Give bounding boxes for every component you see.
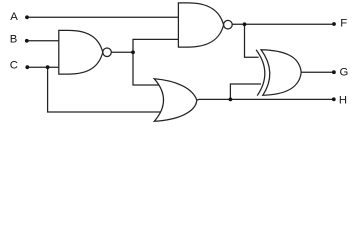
node dot input B [25, 39, 29, 43]
wire OR output to H [197, 98, 335, 101]
node dot input A [25, 15, 29, 19]
svg-text:H: H [339, 95, 347, 107]
wire A input [27, 16, 178, 18]
nand-gate U1 body [59, 30, 103, 74]
wire NAND1 output to node J1 [111, 51, 133, 53]
node dot J1 NAND1 output junction [131, 50, 135, 54]
svg-text:G: G [340, 67, 349, 79]
wire XOR output to G [301, 71, 334, 73]
svg-text:C: C [10, 60, 18, 72]
wire J1 down to OR upper input [133, 52, 159, 85]
wire J2 down to XOR upper input [245, 24, 259, 57]
xor-gate U4 extra input arc [256, 50, 265, 96]
nand-gate U2 body [178, 3, 223, 47]
node dot output G [332, 70, 336, 74]
wire B input [27, 40, 59, 42]
wire C branch to OR lower input [48, 67, 161, 112]
wire C input [27, 66, 59, 68]
svg-text:B: B [10, 34, 18, 46]
node dot J2 NAND2 output junction [243, 22, 247, 26]
or-gate U3 body [154, 79, 197, 122]
wire J1 up to NAND2 lower input [133, 39, 178, 52]
xor-gate U4 body [261, 50, 301, 96]
wire J3 up to XOR lower input [230, 84, 261, 99]
node dot J3 OR output junction [229, 98, 233, 102]
svg-text:F: F [340, 18, 347, 30]
node dot output F [332, 22, 336, 26]
nand-gate U2 bubble [224, 20, 233, 29]
nand-gate U1 bubble [103, 48, 112, 57]
node dot input C [25, 65, 29, 69]
svg-text:A: A [10, 11, 18, 23]
node dot C branch junction [46, 65, 50, 69]
node dot output H [332, 97, 336, 101]
wire NAND2 output to F [232, 23, 334, 25]
